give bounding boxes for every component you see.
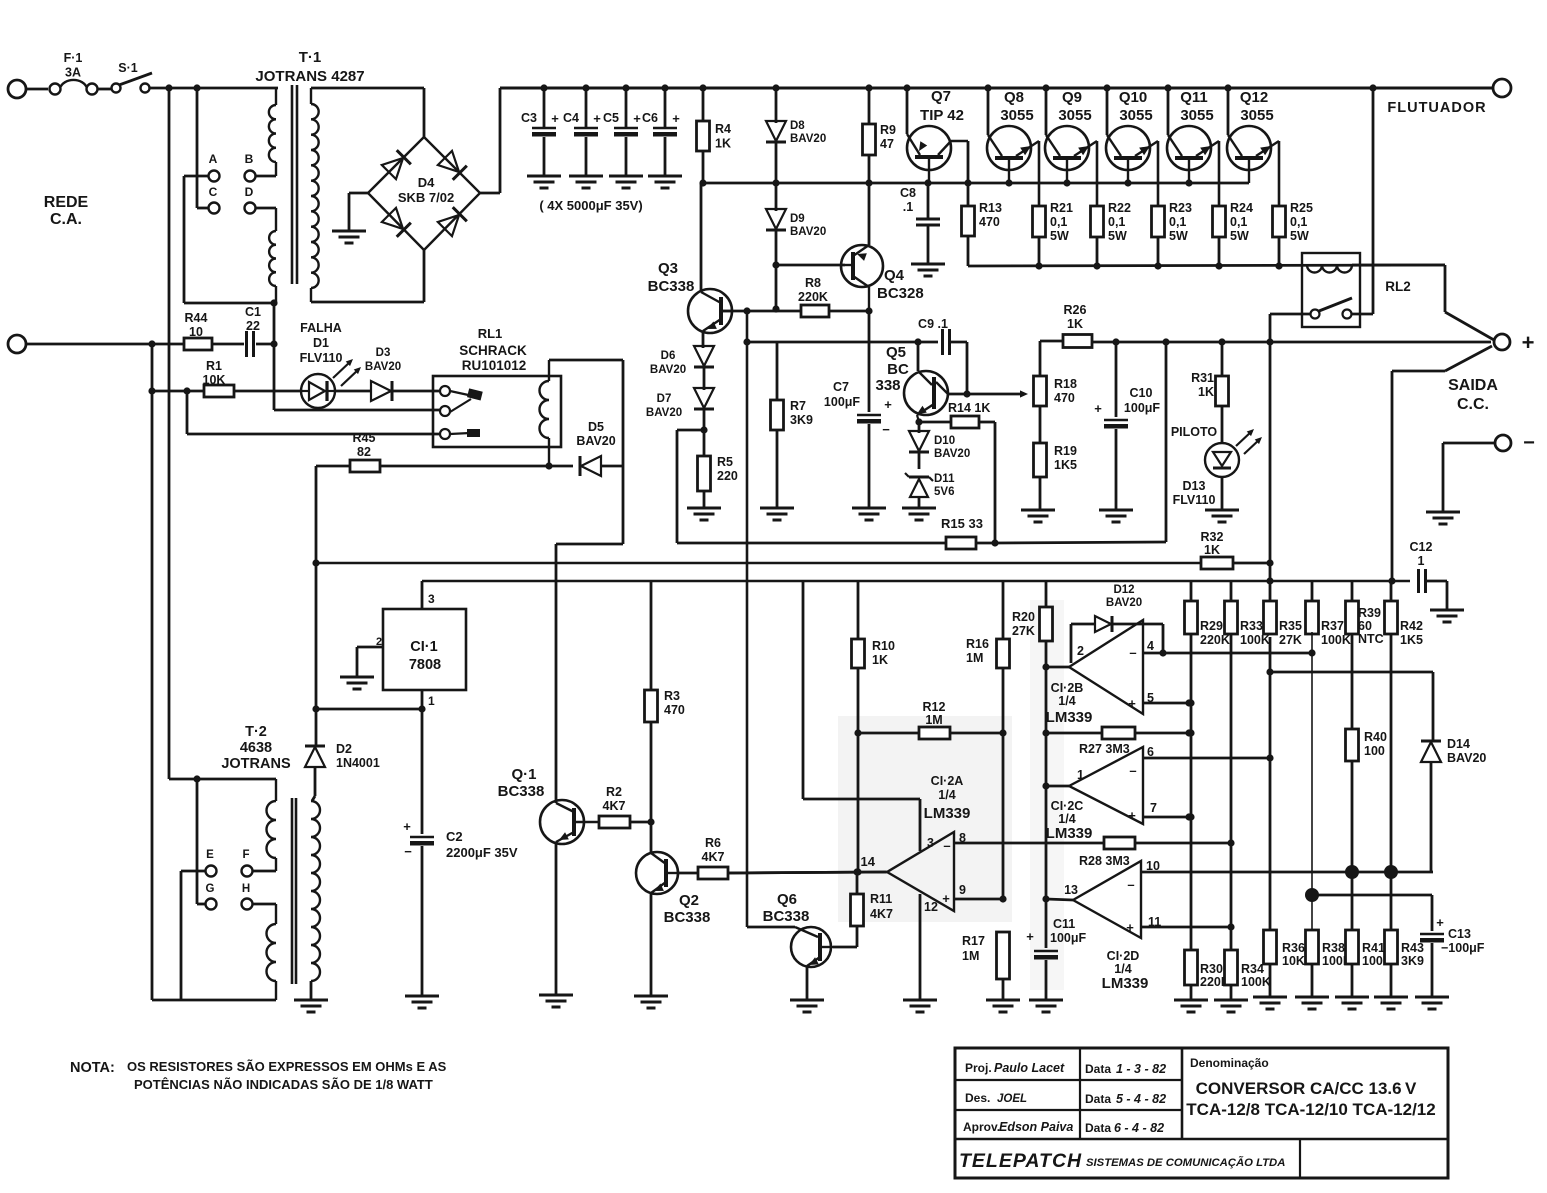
wire R42 top [1390, 581, 1393, 601]
diode D7 [694, 388, 714, 408]
wire C7 top [868, 311, 871, 412]
wire C9 net [747, 341, 938, 344]
wire R13 bottom [967, 236, 970, 266]
svg-text:2: 2 [1077, 644, 1084, 658]
svg-text:+: + [593, 111, 601, 126]
svg-text:TELEPATCH: TELEPATCH [959, 1150, 1082, 1172]
wire plus feedback drop [1391, 371, 1394, 581]
wire R18 top [1039, 341, 1042, 376]
junction R21 output rail [1035, 262, 1042, 269]
resistor R19 [1034, 443, 1047, 477]
svg-text:5W: 5W [1230, 229, 1249, 243]
svg-text:1K5: 1K5 [1400, 633, 1423, 647]
comparator CI-2C [1069, 747, 1143, 824]
wire R4 bottom [702, 151, 705, 183]
svg-text:Edson Paiva: Edson Paiva [999, 1120, 1073, 1134]
wire R22 bottom [1096, 237, 1099, 266]
svg-text:CONVERSOR CA/CC 13.6 V: CONVERSOR CA/CC 13.6 V [1196, 1079, 1417, 1098]
relay RL1 box [433, 376, 561, 447]
resistor R16 [997, 639, 1010, 668]
junction R28 [1227, 839, 1234, 846]
wire T2 primary top [169, 778, 276, 781]
ground Q1 [539, 994, 573, 997]
ground pin12 [903, 999, 937, 1002]
wire reference column [1045, 641, 1048, 948]
wire pin7 out [1143, 816, 1189, 819]
wire minus lead [1443, 442, 1494, 445]
junction R1 branch [183, 387, 190, 394]
wire R37 top [1311, 581, 1314, 601]
wire RL2 coil to output [1352, 264, 1445, 267]
capacitor C5 [614, 127, 638, 129]
node G [206, 899, 217, 910]
junction D14 net [1266, 668, 1273, 675]
wire CI1 pin2 [357, 646, 383, 649]
junction [1187, 729, 1194, 736]
node C [209, 203, 220, 214]
svg-text:7: 7 [1150, 801, 1157, 815]
svg-text:−: − [404, 844, 412, 859]
junction R31 [1218, 338, 1225, 345]
junction R35 rail [1266, 577, 1273, 584]
svg-text:1: 1 [428, 694, 435, 708]
svg-text:1/4: 1/4 [1058, 812, 1075, 826]
ground C4 [569, 175, 603, 178]
svg-text:1K5: 1K5 [1054, 458, 1077, 472]
svg-text:LM339: LM339 [1046, 825, 1093, 842]
junction Q8 base [1005, 179, 1012, 186]
transformer T2 secondary winding [310, 800, 312, 802]
capacitor C2 [410, 836, 434, 838]
wire C1 right [256, 343, 274, 346]
wire R38 bottom [1311, 964, 1314, 997]
svg-text:D: D [245, 185, 254, 199]
svg-text:R13: R13 [979, 201, 1002, 215]
junction tap G primary top [193, 775, 200, 782]
svg-text:S·1: S·1 [118, 61, 138, 75]
ground R5 [687, 507, 721, 510]
svg-text:C4: C4 [563, 111, 579, 125]
wire bridge bottom riser [423, 250, 426, 302]
wire bridge plus riser [499, 88, 502, 193]
wire C4 top [585, 88, 588, 127]
svg-text:3K9: 3K9 [1401, 954, 1424, 968]
svg-text:Data: Data [1085, 1062, 1111, 1076]
wire R33 top [1230, 581, 1233, 601]
wire R6 to pin14 [728, 872, 886, 873]
ground CI-1 [340, 676, 374, 679]
junction Q10 base [1124, 179, 1131, 186]
wire R21 bottom [1038, 237, 1041, 266]
resistor R20 [1040, 607, 1053, 641]
svg-text:3055: 3055 [1000, 107, 1033, 124]
svg-text:NTC: NTC [1358, 632, 1384, 646]
ground C5 [609, 175, 643, 178]
ground T2 [294, 999, 328, 1002]
wire main positive rail [500, 87, 1494, 90]
svg-text:R10: R10 [872, 639, 895, 653]
wire Q4 emitter riser [868, 183, 871, 245]
relay RL1 coil [548, 360, 550, 381]
resistor R33 [1225, 601, 1238, 634]
bridge diode D4c [382, 208, 403, 229]
wire Q9 collector riser [1045, 88, 1048, 135]
wire R30 bottom [1190, 985, 1193, 1000]
svg-text:82: 82 [357, 445, 371, 459]
wire Q10 emitter [1157, 141, 1160, 206]
wire coil net down 2 [622, 466, 625, 544]
wire tap G [197, 903, 205, 906]
wire C3 top [543, 88, 546, 127]
wire D2 top [315, 709, 318, 746]
svg-text:–: – [1129, 763, 1136, 778]
terminal mains L [8, 80, 26, 98]
svg-text:R3: R3 [664, 689, 680, 703]
resistor R30 [1185, 950, 1198, 985]
svg-text:5W: 5W [1050, 229, 1069, 243]
wire D8 bottom [775, 141, 778, 183]
resistor R45 [350, 460, 380, 472]
diode D10 [909, 431, 929, 451]
svg-text:R25: R25 [1290, 201, 1313, 215]
svg-text:R24: R24 [1230, 201, 1253, 215]
wire rail x197 to tap C [196, 88, 199, 208]
junction C9 net left [743, 338, 750, 345]
svg-text:C11: C11 [1053, 917, 1075, 931]
junction R12 left [854, 729, 861, 736]
wire R42 column [1390, 634, 1393, 930]
junction C4 rail [582, 84, 589, 91]
fuse F1 [50, 84, 61, 95]
wire riser to plus sense [1165, 342, 1168, 542]
wire D2 bottom [314, 768, 317, 796]
junction Q11 base [1185, 179, 1192, 186]
wire C9 down [966, 342, 969, 394]
svg-text:.1: .1 [903, 200, 913, 214]
wire D11 bottom [918, 497, 921, 508]
wire C13 bottom [1431, 943, 1434, 997]
svg-text:R26: R26 [1064, 303, 1087, 317]
ground R19 [1021, 509, 1055, 512]
wire pin1 to D2 [316, 708, 422, 711]
svg-text:27K: 27K [1012, 624, 1035, 638]
svg-text:R5: R5 [717, 455, 733, 469]
wire pin4 out [1143, 652, 1163, 655]
wire tap F [253, 870, 276, 873]
transformer T1 secondary winding [310, 88, 312, 104]
wire Q3 emitter [702, 331, 705, 348]
svg-text:220: 220 [717, 469, 738, 483]
svg-text:10K: 10K [1282, 954, 1305, 968]
wire D1 to D3 [335, 390, 372, 393]
svg-text:R30: R30 [1200, 962, 1223, 976]
wire Q12 emitter [1278, 141, 1281, 206]
svg-text:4: 4 [1147, 639, 1154, 653]
wire T2 secondary bottom [310, 981, 313, 1000]
ground SAIDA minus [1426, 511, 1460, 514]
wire [25, 88, 48, 91]
wire D10 top [918, 422, 921, 433]
node H [242, 899, 253, 910]
junction pin13 [1042, 895, 1049, 902]
wire R24 bottom [1218, 237, 1221, 266]
wire Q1 collector riser [555, 544, 558, 803]
capacitor C7 [857, 414, 881, 416]
svg-text:470: 470 [664, 703, 685, 717]
wire C5 top [625, 88, 628, 127]
svg-text:1: 1 [1418, 554, 1425, 568]
junction pin7 [1185, 813, 1192, 820]
wire D12 right [1113, 623, 1163, 626]
wire R7 bottom [776, 430, 779, 508]
wire Q2 collector to R6 [678, 872, 698, 875]
wire Q1 emitter [555, 842, 558, 995]
svg-text:D4: D4 [418, 175, 435, 190]
svg-text:R35: R35 [1279, 619, 1302, 633]
junction D2 R45 net [312, 705, 319, 712]
junction base drive left [699, 179, 706, 186]
wire R43 bottom [1390, 964, 1393, 997]
svg-text:D6: D6 [661, 350, 676, 362]
svg-text:9: 9 [959, 883, 966, 897]
ground C8 [911, 263, 945, 266]
svg-text:1K: 1K [715, 137, 731, 151]
resistor R25 [1273, 206, 1286, 237]
wire R34 bottom [1230, 985, 1233, 1000]
diode D3 [371, 381, 391, 401]
svg-text:+: + [1126, 920, 1134, 935]
wire R44 to C1 [212, 343, 244, 346]
wire D6 D7 [703, 366, 706, 390]
transistor Q12 [1227, 126, 1271, 170]
wire D14 riser [1432, 672, 1435, 740]
junction pin6 [1266, 754, 1273, 761]
resistor R7 [771, 400, 784, 430]
wire R10 top [857, 581, 860, 639]
wire R40 bottom [1351, 761, 1354, 930]
wire R14 right [979, 421, 995, 424]
junction pin11 [1227, 923, 1234, 930]
svg-text:R16: R16 [966, 637, 989, 651]
potentiometer R18 [1034, 376, 1047, 406]
wire R35 column [1269, 637, 1272, 930]
junction R27 [1185, 729, 1192, 736]
wire Q5 base lead [917, 342, 920, 371]
svg-text:4638: 4638 [240, 740, 272, 756]
svg-text:JOTRANS: JOTRANS [221, 756, 291, 772]
junction pin9 R17 [999, 895, 1006, 902]
node D [245, 203, 256, 214]
svg-text:Q7: Q7 [931, 88, 951, 105]
svg-text:5W: 5W [1169, 229, 1188, 243]
svg-text:SISTEMAS DE COMUNICAÇÃO LTDA: SISTEMAS DE COMUNICAÇÃO LTDA [1086, 1156, 1285, 1169]
wire R16 top [1002, 581, 1005, 639]
wire R27 left lead [1046, 732, 1102, 735]
transistor Q4 [841, 245, 883, 287]
resistor R40 [1346, 729, 1359, 761]
junction R4 rail [699, 84, 706, 91]
wire D14 bottom [1430, 762, 1433, 872]
wire R1 left [152, 390, 204, 393]
wire tap G up [196, 779, 199, 904]
svg-text:SAIDA: SAIDA [1448, 377, 1498, 394]
terminal mains N [8, 335, 26, 353]
svg-text:1M: 1M [925, 713, 942, 727]
svg-text:CI·1: CI·1 [410, 639, 437, 655]
wire C4 bottom [585, 137, 588, 176]
wire output corner [1444, 265, 1447, 312]
svg-text:−100μF: −100μF [1441, 941, 1485, 955]
wire pin11 out [1141, 926, 1231, 929]
LED D1 FALHA [301, 374, 335, 408]
junction Q8 collector rail [984, 84, 991, 91]
relay RL2 contact left [1311, 310, 1320, 319]
wire D12 left [1071, 623, 1094, 626]
svg-text:C10: C10 [1130, 386, 1153, 400]
svg-text:R22: R22 [1108, 201, 1131, 215]
ground R43 [1374, 996, 1408, 999]
svg-text:TIP 42: TIP 42 [920, 107, 964, 124]
wire bridge minus [349, 192, 368, 195]
wire Q6 emitter [806, 966, 809, 1000]
svg-text:Denominação: Denominação [1190, 1056, 1269, 1070]
wire R18 R19 [1039, 406, 1042, 443]
resistor R5 [698, 456, 711, 491]
svg-text:BC328: BC328 [877, 285, 924, 302]
svg-text:0,1: 0,1 [1290, 215, 1307, 229]
svg-text:REDE: REDE [44, 194, 89, 211]
svg-text:Q3: Q3 [658, 260, 678, 277]
svg-text:Data: Data [1085, 1121, 1111, 1135]
wire RL2 contact right lead [1352, 313, 1373, 316]
resistor R38 [1306, 930, 1319, 964]
svg-text:JOTRANS 4287: JOTRANS 4287 [255, 68, 364, 85]
svg-text:SKB 7/02: SKB 7/02 [398, 190, 454, 205]
svg-text:+: + [403, 819, 411, 834]
wire Q12 collector riser [1227, 88, 1230, 135]
wire [967, 183, 970, 206]
junction Q5 base [914, 338, 921, 345]
wire C2 bottom [421, 846, 424, 996]
diode D12 [1095, 616, 1111, 632]
resistor R44 [184, 338, 212, 350]
wire diagonal from plus terminal [1445, 346, 1492, 371]
LED D13 arrows [1236, 431, 1252, 446]
wire C12 ground lead [1446, 581, 1449, 610]
wire tap A [184, 175, 208, 178]
svg-text:–: – [1129, 645, 1136, 660]
wire D13 bottom [1221, 477, 1224, 510]
junction C6 rail [661, 84, 668, 91]
svg-text:R8: R8 [805, 276, 821, 290]
svg-text:1 - 3 - 82: 1 - 3 - 82 [1116, 1062, 1166, 1076]
junction riser plus [1162, 338, 1169, 345]
svg-text:C6: C6 [642, 111, 658, 125]
wire C13 riser [1431, 895, 1434, 931]
junction [1187, 699, 1194, 706]
wire secondary top to bridge [311, 87, 424, 90]
ground D11 [902, 507, 936, 510]
ground C7 [852, 507, 886, 510]
resistor R34 [1225, 950, 1238, 985]
ground R41 [1335, 996, 1369, 999]
wire R29 column [1190, 634, 1193, 950]
wire mains L to T1 primary [150, 87, 278, 90]
relay RL2 box [1302, 253, 1360, 327]
svg-text:OS RESISTORES SÃO EXPRESSOS EM: OS RESISTORES SÃO EXPRESSOS EM OHMs E AS [127, 1059, 447, 1074]
wire pin9 out [954, 898, 1003, 901]
svg-text:C13: C13 [1448, 927, 1471, 941]
svg-text:6 - 4 - 82: 6 - 4 - 82 [1114, 1121, 1164, 1135]
node F [242, 866, 253, 877]
wire mains N [25, 343, 184, 346]
resistor R21 [1033, 206, 1046, 237]
svg-text:D8: D8 [790, 120, 805, 132]
svg-text:SCHRACK: SCHRACK [459, 343, 527, 358]
svg-text:4K7: 4K7 [603, 799, 626, 813]
svg-text:5W: 5W [1290, 229, 1309, 243]
wire bridge plus [480, 192, 500, 195]
svg-text:RU101012: RU101012 [462, 358, 527, 373]
svg-text:R45: R45 [353, 431, 376, 445]
junction R13 base drive [964, 179, 971, 186]
resistor R39 [1346, 601, 1359, 634]
svg-text:12: 12 [924, 900, 938, 914]
junction R22 output rail [1093, 262, 1100, 269]
junction Q10 collector rail [1103, 84, 1110, 91]
svg-text:R27 3M3: R27 3M3 [1079, 742, 1130, 756]
wire RL1 coil top [549, 359, 623, 362]
diode D9 [766, 209, 786, 229]
wire R26 left [1040, 340, 1063, 343]
wire tap B [256, 175, 276, 178]
wire rail x152 (mains N down) [151, 344, 154, 1000]
wire CI1 pin3 riser [421, 581, 424, 609]
svg-text:Q11: Q11 [1180, 89, 1208, 106]
wire plus branch [1392, 370, 1445, 373]
capacitor C11 [1034, 950, 1058, 952]
svg-text:3K9: 3K9 [790, 413, 813, 427]
svg-text:D11: D11 [934, 473, 955, 485]
wire R19 bottom [1039, 477, 1042, 510]
junction C10 [1112, 338, 1119, 345]
svg-text:Q4: Q4 [884, 267, 905, 284]
wire R5 bottom [703, 491, 706, 508]
svg-text:T·1: T·1 [299, 49, 322, 66]
svg-text:1K: 1K [1204, 543, 1220, 557]
wire D7 bottom [703, 408, 706, 456]
svg-text:R42: R42 [1400, 619, 1423, 633]
svg-text:Q9: Q9 [1062, 89, 1082, 106]
transistor Q8 [987, 126, 1031, 170]
wire D12 to pin4 [1162, 624, 1165, 653]
svg-text:H: H [242, 883, 250, 895]
wire R20 top [1045, 581, 1048, 607]
title block frame [955, 1048, 1448, 1178]
svg-text:+: + [1128, 808, 1136, 823]
ground D13 [1205, 509, 1239, 512]
wire Q5 collector to R18 [948, 393, 1024, 396]
resistor R22 [1091, 206, 1104, 237]
ground C3 [527, 175, 561, 178]
svg-text:100μF: 100μF [1050, 931, 1087, 945]
diode D8 [766, 121, 786, 141]
svg-text:FLV110: FLV110 [300, 351, 343, 365]
svg-text:–: – [1127, 877, 1134, 892]
resistor R32 [1201, 557, 1233, 569]
svg-text:BAV20: BAV20 [790, 226, 826, 238]
svg-text:D12: D12 [1113, 584, 1134, 596]
